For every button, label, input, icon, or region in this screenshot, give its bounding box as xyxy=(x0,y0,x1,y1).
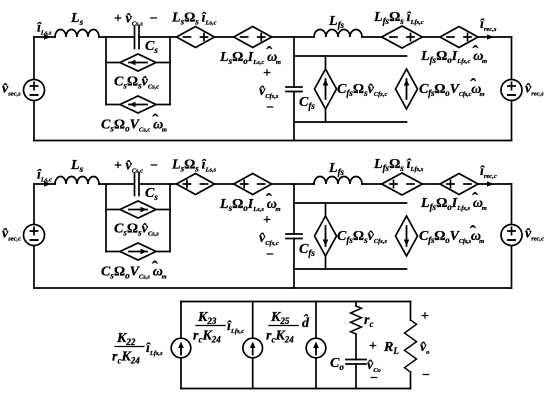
wire left vertical row2 xyxy=(33,184,35,225)
wire + arrow i_rec,s xyxy=(478,36,512,38)
wire box bottom rail row1 xyxy=(294,121,407,123)
wire left vertical row1 xyxy=(33,37,35,80)
dependent source LsOmega_s i_Ls,s row2 xyxy=(177,174,215,195)
inductor Lfs row1 xyxy=(314,30,362,38)
wire right vertical row2 xyxy=(511,184,513,225)
wire + arrow i_rec,c xyxy=(478,183,512,185)
voltage source v_rec,s row1 xyxy=(501,80,522,101)
wire row2 xyxy=(422,183,440,185)
wire row2 xyxy=(362,183,382,185)
wire row2 xyxy=(215,183,234,185)
capacitor Cfs row1 xyxy=(286,86,302,88)
dependent source CfsOmega_o VCfs,s row2 xyxy=(396,216,418,256)
wire row1 xyxy=(139,36,177,38)
wire bottom row1 xyxy=(34,140,512,142)
wire box top rail row2 xyxy=(294,202,407,204)
wire row1 xyxy=(362,36,382,38)
dependent source CsOmega_o VCs,s row2 xyxy=(106,243,170,260)
svg-text:d̂: d̂ xyxy=(302,313,310,331)
wire row2 xyxy=(99,183,134,185)
wire Cfs vertical row1 xyxy=(293,37,295,87)
svg-text:+: + xyxy=(421,309,429,324)
dependent source LfsOmega_s iLfs,c row1 xyxy=(382,26,423,48)
wire box bottom rail row2 xyxy=(294,268,407,270)
current source K25/rcK24 d xyxy=(306,302,326,389)
resistor rc xyxy=(355,302,357,307)
dependent source LfsOmega_o ILfs,c row1 xyxy=(440,27,478,48)
resistor RL xyxy=(410,302,412,321)
wire box top rail row1 xyxy=(294,55,407,57)
dependent source CsOmega_s v_Cs,c row1 xyxy=(106,54,170,71)
wire output top rail xyxy=(181,301,411,303)
wire ladder right vertical row2 xyxy=(169,184,171,252)
voltage source v_sec,s row1 xyxy=(24,80,45,101)
wire bottom row2 xyxy=(34,287,512,289)
svg-text:−: − xyxy=(370,371,378,386)
wire right vertical row1 xyxy=(511,37,513,80)
dependent source LsOmega_o ILs,s row2 xyxy=(234,174,272,195)
wire row1 xyxy=(99,36,134,38)
dependent source CfsOmega_o VCfs,c row1 xyxy=(396,69,418,109)
svg-text:−: − xyxy=(266,248,274,263)
capacitor Cs row2 xyxy=(134,173,136,196)
wire row1 xyxy=(422,36,440,38)
voltage source v_sec,c row2 xyxy=(24,225,45,246)
dependent source CfsOmega_s vCfs,c row1 xyxy=(315,56,337,122)
wire top-left + arrow i_Ls,s xyxy=(34,36,55,38)
dependent source LfsOmega_o ILfs,s row2 xyxy=(440,174,478,195)
wire row1 xyxy=(272,36,314,38)
capacitor Cfs row2 xyxy=(286,233,302,235)
voltage source v_rec,c row2 xyxy=(501,225,522,246)
wire output bottom rail xyxy=(181,388,411,390)
dependent source LsOmega_s i_Ls,c row1 xyxy=(177,27,215,48)
wire Cfs vertical lower row2 xyxy=(293,239,295,289)
wire top-left + arrow i_Ls,c xyxy=(34,183,55,185)
svg-text:+: + xyxy=(369,339,377,354)
current source K22/rcK24 iLfs,s xyxy=(171,302,191,389)
wire row2 xyxy=(139,183,177,185)
current source K23/rcK24 iLfs,c xyxy=(243,302,263,389)
capacitor Cs row1 xyxy=(134,26,136,49)
wire ladder left vertical row2 xyxy=(105,184,107,252)
dependent source LsOmega_o ILs,c row1 xyxy=(234,27,272,48)
dependent source CsOmega_o VCs,c row1 xyxy=(106,96,170,113)
wire Cfs vertical lower row1 xyxy=(293,92,295,141)
inductor Ls row1 xyxy=(55,30,99,38)
svg-text:+: + xyxy=(263,66,271,81)
wire row1 xyxy=(215,36,234,38)
wire Cfs vertical row2 xyxy=(293,184,295,234)
dependent source CsOmega_s v_Cs,s row2 xyxy=(106,201,170,218)
wire row2 xyxy=(272,183,314,185)
svg-text:−: − xyxy=(422,368,430,383)
inductor Ls row2 xyxy=(55,177,99,184)
svg-text:+: + xyxy=(263,213,271,228)
svg-text:−: − xyxy=(266,101,274,116)
dependent source CfsOmega_s vCfs,s row2 xyxy=(315,203,337,269)
capacitor Co xyxy=(346,359,366,361)
wire ladder left vertical row1 xyxy=(105,37,107,105)
inductor Lfs row2 xyxy=(314,177,362,184)
wire ladder right vertical row1 xyxy=(169,37,171,105)
dependent source LfsOmega_s iLfs,s row2 xyxy=(382,173,423,195)
